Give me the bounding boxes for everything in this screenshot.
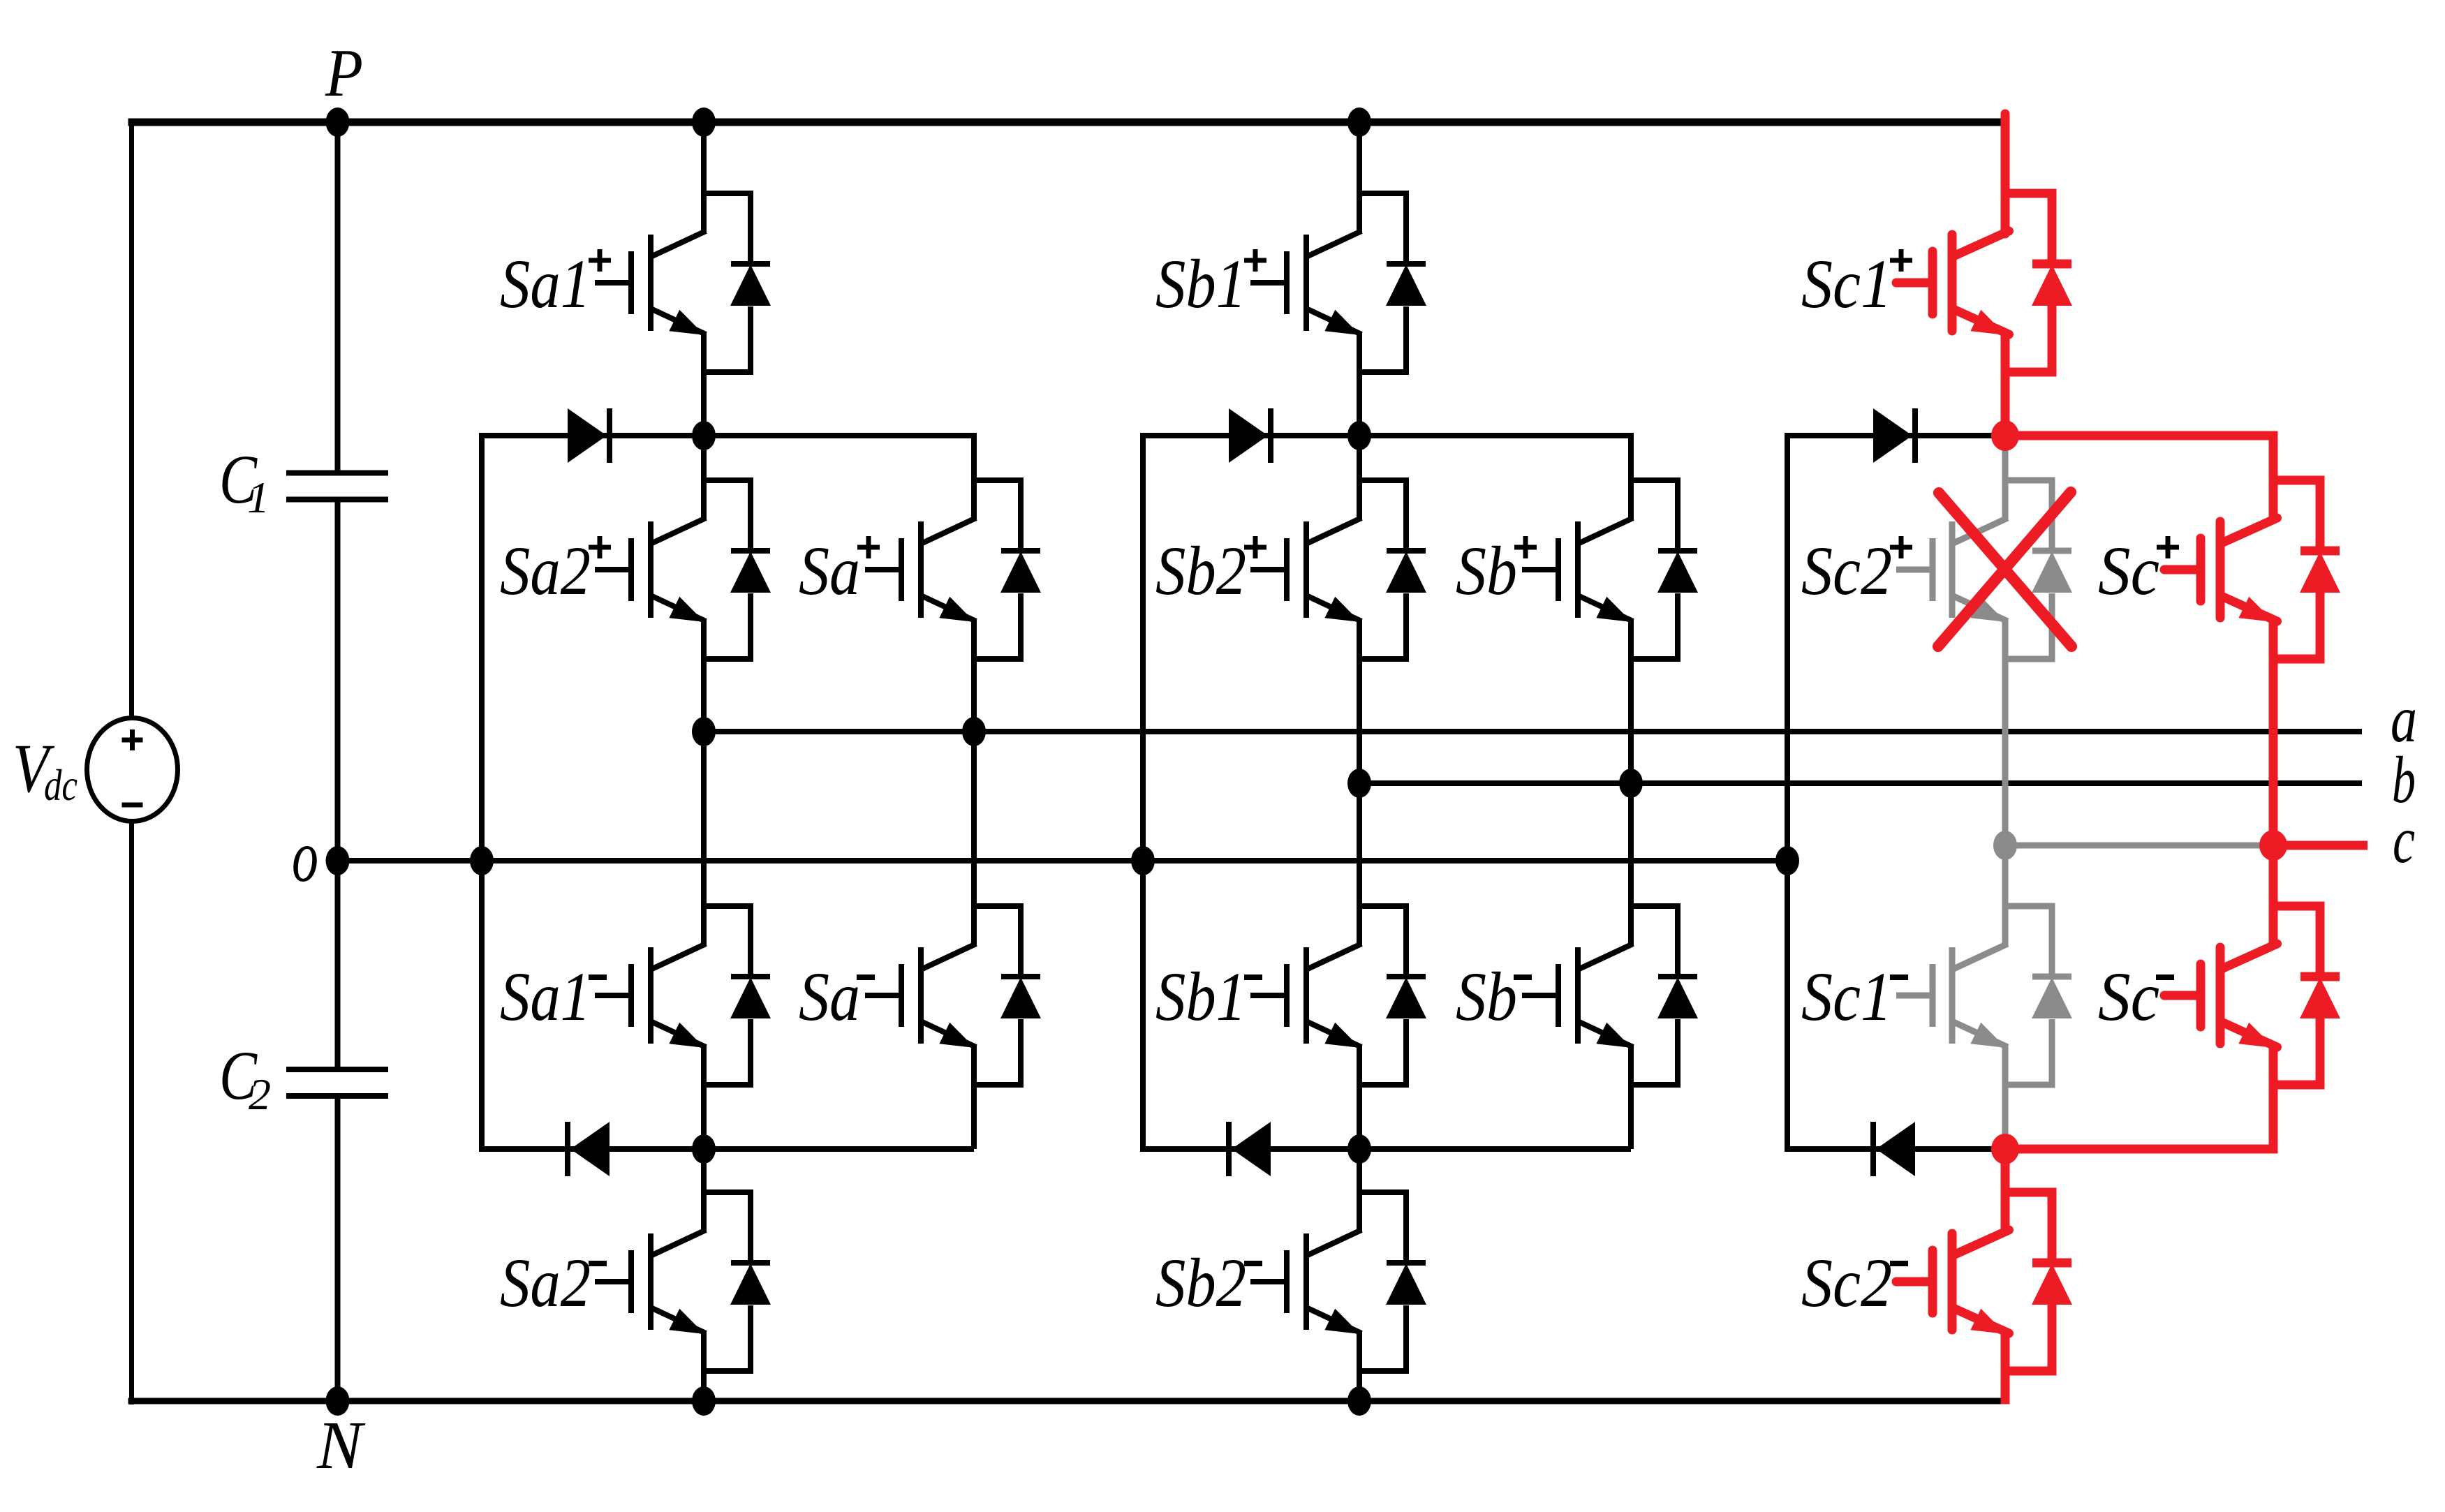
node N junction (326, 1386, 350, 1416)
igbt Sa+ symbol (865, 480, 1021, 659)
wire leg c red right branch Sc- to B row (2269, 1044, 2278, 1154)
wire leg a clamp vertical branch (479, 433, 485, 1152)
wire leg b B row (1143, 1146, 1631, 1152)
svg-text:Sa: Sa (799, 958, 860, 1035)
wire leg c red B row right segment (2005, 1145, 2278, 1154)
wire leg c red column from P rail to Sc1+ (2001, 114, 2010, 234)
wire P rail top (128, 119, 2006, 126)
svg-text:Sb2: Sb2 (1155, 532, 1246, 609)
svg-text:c: c (2393, 803, 2415, 877)
wire leg b clamp vertical branch (1140, 433, 1146, 1152)
svg-text:Sc: Sc (2098, 532, 2159, 609)
wire leg a right branch T to Sa+ (971, 433, 977, 521)
wire leg c B row (black) (1787, 1146, 2005, 1152)
wire leg b main column Sb2- to N rail (1357, 1331, 1362, 1401)
wire leg b main column node Bb to Sb2- (1357, 1149, 1362, 1233)
wire leg b right branch T to Sb+ (1628, 433, 1634, 521)
wire leg a main column Sa1+ emitter to node Ta (701, 332, 707, 436)
node Ba (692, 1134, 716, 1164)
node o leg a clamp junction (470, 846, 494, 875)
svg-text:Sb: Sb (1456, 532, 1517, 609)
wire leg c red column Sc2- to N rail (2001, 1331, 2010, 1404)
wire leg a main column Sa2+ to node a (701, 618, 707, 732)
diode leg b clamp top (to node Tb) (1229, 408, 1268, 463)
wire output line b (1359, 780, 2362, 786)
node Tb (1347, 421, 1371, 450)
node o (326, 846, 350, 875)
source Vdc plus sign (122, 738, 143, 743)
node leg b P-rail junction (1347, 108, 1371, 137)
igbt Sa- symbol (865, 906, 1021, 1085)
node Bb (1347, 1134, 1371, 1164)
igbt Sa2+ symbol (595, 480, 751, 659)
wire leg a T row to right branch (704, 433, 974, 438)
igbt Sa1- symbol (595, 906, 751, 1085)
wire leg a right branch Sa- to B row (971, 1044, 977, 1149)
wire centre bus C1 to o (335, 500, 341, 861)
igbt Sb2- symbol (1250, 1192, 1406, 1371)
igbt Sb- symbol (1522, 906, 1678, 1085)
wire leg b right branch node b to Sb- (1628, 783, 1634, 947)
wire leg c red right branch Sc+ to node c (2269, 618, 2278, 845)
svg-text:Sa2: Sa2 (500, 1244, 591, 1321)
diode leg b clamp bottom (from node Bb) (1232, 1122, 1271, 1176)
wire leg b right branch Sb- to B row (1628, 1044, 1634, 1149)
svg-text:Sc2: Sc2 (1801, 532, 1892, 609)
wire leg b main column from P rail to Sb1+ collector (1357, 122, 1362, 234)
wire leg c red column node Bc to Sc2- (2001, 1149, 2010, 1233)
svg-text:2: 2 (249, 1069, 271, 1119)
wire leg c grey column node Tc to Sc2+ (2002, 436, 2009, 521)
wire leg b main column Sb1- to node Bb (1357, 1044, 1362, 1149)
wire node o row (338, 858, 1788, 864)
wire leg b main column T to Sb2+ (1357, 436, 1362, 521)
wire output line c grey segment (2005, 843, 2273, 849)
wire leg a main column T to Sa2+ (701, 436, 707, 521)
node a main (692, 717, 716, 746)
node o leg b clamp junction (1131, 846, 1155, 875)
wire leg c grey column node c to Sc1- (2002, 845, 2009, 947)
node leg a N-rail junction (692, 1386, 716, 1416)
svg-text:Sc2: Sc2 (1801, 1244, 1892, 1321)
wire leg b main column node b to Sb1- (1357, 783, 1362, 947)
wire leg a clamp branch T row (482, 433, 704, 438)
wire leg c red right branch T to Sc+ (2269, 436, 2278, 521)
svg-text:Sa2: Sa2 (500, 532, 591, 609)
svg-text:1: 1 (247, 473, 269, 522)
wire leg b main column Sb1+ emitter to node Tb (1357, 332, 1362, 436)
wire leg c clamp vertical branch (black) (1785, 433, 1790, 1152)
wire leg a main column node a to Sa1- (701, 732, 707, 947)
node leg b N-rail junction (1347, 1386, 1371, 1416)
igbt Sc2- symbol (1896, 1192, 2052, 1371)
wire leg a B row (482, 1146, 974, 1152)
svg-text:Sb: Sb (1456, 958, 1517, 1035)
svg-text:Sc1: Sc1 (1801, 958, 1892, 1035)
wire leg a main column node Ba to Sa2- (701, 1149, 707, 1233)
wire leg b T row to right branch (1359, 433, 1631, 438)
svg-text:Sb1: Sb1 (1155, 245, 1246, 323)
svg-text:o: o (292, 815, 318, 897)
diode leg c clamp bottom (from node Bc) (1876, 1122, 1915, 1176)
wire leg c red column Sc1+ to node Tc (2001, 332, 2010, 436)
node b right (1619, 769, 1643, 798)
svg-text:Sb1: Sb1 (1155, 958, 1246, 1035)
wire left bus upper segment (129, 119, 134, 718)
wire leg b right branch Sb+ to node b (1628, 618, 1634, 783)
wire left bus lower segment (129, 821, 134, 1404)
igbt Sc+ symbol (2164, 480, 2320, 659)
wire leg c clamp branch T row (black) (1787, 433, 2005, 438)
wire output line c red segment (2273, 841, 2368, 850)
igbt Sc1+ symbol (1896, 193, 2052, 372)
wire leg a main column Sa2- to N rail (701, 1331, 707, 1401)
wire centre bus C2 to N (335, 1096, 341, 1401)
igbt Sc1- (grey) symbol (1896, 906, 2052, 1085)
node P junction (326, 108, 350, 137)
svg-text:Sc1: Sc1 (1801, 245, 1892, 323)
fault cross over Sc2+ (1939, 493, 2071, 646)
wire output line a (704, 729, 2362, 734)
wire leg c red right branch node c to Sc- (2269, 845, 2278, 947)
svg-text:N: N (316, 1408, 366, 1483)
igbt Sa2- symbol (595, 1192, 751, 1371)
igbt Sb1- symbol (1250, 906, 1406, 1085)
diode leg a clamp bottom (from node Ba) (570, 1122, 610, 1176)
wire N rail bottom (128, 1398, 2006, 1404)
igbt Sb2+ symbol (1250, 480, 1406, 659)
igbt Sb+ symbol (1522, 480, 1678, 659)
wire leg c red T row to right branch (2005, 431, 2278, 440)
wire leg c grey column Sc1- to node Bc (2002, 1044, 2009, 1149)
svg-text:P: P (325, 36, 363, 110)
capacitor C2 (286, 1067, 388, 1072)
igbt Sc- symbol (2164, 906, 2320, 1085)
wire leg a main column from P rail to Sa1+ collector (701, 122, 707, 234)
igbt Sb1+ symbol (1250, 193, 1406, 372)
diode leg a clamp top (to node Ta) (568, 408, 607, 463)
capacitor C1 (286, 470, 388, 476)
wire leg b clamp branch T row (1143, 433, 1359, 438)
wire leg a right branch Sa+ to node a (971, 618, 977, 732)
svg-text:Sa1: Sa1 (500, 958, 591, 1035)
wire leg a right branch node a to Sa- (971, 732, 977, 947)
wire centre bus o to C2 (335, 861, 341, 1069)
node c grey junction (1993, 831, 2017, 860)
svg-text:Sa1: Sa1 (500, 245, 591, 323)
svg-text:dc: dc (44, 760, 77, 810)
node b main (1347, 769, 1371, 798)
igbt Sa1+ symbol (595, 193, 751, 372)
node Bc (red) (1991, 1134, 2019, 1164)
node c red junction (2259, 830, 2287, 861)
node leg a P-rail junction (692, 108, 716, 137)
node o leg c clamp junction (1775, 846, 1799, 875)
igbt Sc2+ (faulted) symbol (1896, 480, 2052, 659)
source Vdc minus sign (122, 803, 143, 808)
wire leg b main column Sb2+ to node b (1357, 618, 1362, 783)
svg-text:Sb2: Sb2 (1155, 1244, 1246, 1321)
svg-text:Sc: Sc (2098, 958, 2159, 1035)
node Ta (692, 421, 716, 450)
wire leg c grey column Sc2+ to node c (2002, 618, 2009, 845)
svg-text:Sa: Sa (799, 532, 860, 609)
node a right (962, 717, 986, 746)
wire leg a main column Sa1- to node Ba (701, 1044, 707, 1149)
wire centre bus P to C1 (335, 122, 341, 473)
node Tc (red) (1991, 420, 2019, 451)
diode leg c clamp top (to node Tc) (1873, 408, 1912, 463)
source Vdc circle (87, 718, 178, 822)
